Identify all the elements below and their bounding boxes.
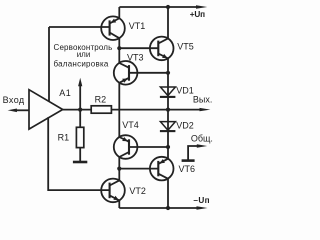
transistor VT6 — [150, 157, 174, 181]
wire VT6 collector to bottom rail — [167, 179, 169, 208]
resistor R2 — [91, 106, 111, 113]
svg-text:VT4: VT4 — [122, 120, 139, 130]
wire VT3 emitter down to VT4 — [118, 83, 120, 137]
node dot on bottom rail — [166, 206, 170, 210]
wire output — [168, 109, 201, 111]
node B dot — [166, 71, 170, 75]
svg-text:VT3: VT3 — [127, 52, 144, 62]
node A dot — [117, 46, 121, 50]
wire node A to VT3 collector — [118, 48, 120, 63]
servo arrow head — [78, 78, 82, 86]
wire common terminal — [188, 146, 198, 160]
transistor VT3 — [114, 61, 138, 85]
wire R1 bottom — [79, 148, 81, 161]
svg-text:A1: A1 — [59, 88, 71, 98]
node output dot — [166, 108, 170, 112]
wire VT2 emitter to bottom rail — [118, 200, 120, 208]
arrow common terminal — [197, 144, 207, 147]
wire VT4 collector down to node D — [118, 157, 120, 169]
svg-text:Общ.: Общ. — [191, 134, 213, 144]
wire input — [16, 109, 30, 111]
wire top rail +Un — [119, 6, 198, 8]
node output of op-amp dot — [78, 108, 82, 112]
svg-text:Вых.: Вых. — [193, 94, 212, 104]
wire VT3 base to node B — [129, 72, 168, 74]
transistor VT4 — [114, 135, 138, 159]
servo arrow line — [79, 86, 81, 110]
wire VD1 column — [167, 73, 169, 110]
svg-text:VT5: VT5 — [177, 41, 194, 51]
diode VD1 — [160, 87, 175, 96]
wire left rail lower — [48, 117, 109, 190]
wire R1 top — [79, 110, 81, 128]
wire VT5 emitter to node B — [167, 58, 169, 72]
wire VT1 emitter to top rail — [118, 7, 120, 18]
svg-text:балансировка: балансировка — [53, 60, 108, 69]
svg-text:или: или — [77, 50, 91, 59]
transistor VT1 — [101, 16, 125, 40]
node D dot — [117, 167, 121, 171]
svg-text:R1: R1 — [58, 132, 70, 142]
arrow output terminal — [200, 108, 211, 111]
wire bottom rail -Un — [119, 207, 198, 209]
resistor R1 — [76, 127, 83, 147]
wire node A to VT5 base — [119, 47, 158, 49]
op-amp A1 — [29, 90, 63, 129]
wire op-amp output — [63, 109, 92, 111]
wire VT1 base from left rail — [49, 26, 110, 28]
svg-text:VD1: VD1 — [176, 85, 194, 95]
transistor VT5 — [150, 37, 174, 61]
wire VT6 emitter to node C — [167, 147, 169, 159]
diode VD2 — [160, 122, 175, 131]
wire VT5 collector to top rail — [167, 7, 169, 38]
node dot on top rail — [166, 5, 170, 9]
wire node D to VT6 base — [119, 168, 158, 170]
arrow -Un terminal — [197, 206, 208, 209]
wire left rail upper (to op-amp top edge) — [48, 27, 50, 102]
svg-text:VD2: VD2 — [176, 121, 194, 131]
wire VT1 collector to node A — [118, 38, 120, 48]
svg-text:Вход: Вход — [3, 95, 25, 105]
ground at common — [182, 159, 195, 162]
svg-text:+Uп: +Uп — [190, 10, 205, 19]
svg-text:VT1: VT1 — [129, 21, 146, 31]
arrow input terminal — [8, 109, 17, 113]
ground under R1 — [73, 161, 87, 164]
arrow +Un terminal — [196, 5, 207, 8]
wire VT2 collector to node D — [118, 169, 120, 181]
svg-text:R2: R2 — [95, 94, 107, 104]
svg-text:–Uп: –Uп — [193, 196, 210, 205]
node C dot — [166, 145, 170, 149]
svg-text:VT2: VT2 — [129, 186, 146, 196]
svg-text:VT6: VT6 — [179, 164, 196, 174]
transistor VT2 — [101, 179, 125, 203]
wire VT4 base to node C — [129, 146, 168, 148]
wire VD2 column — [167, 110, 169, 147]
wire R2 to output node — [111, 109, 168, 111]
